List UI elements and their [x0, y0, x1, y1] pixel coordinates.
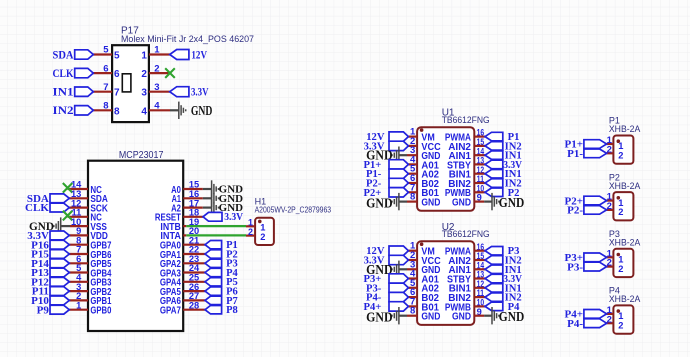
wire U1 pin 8 to ground	[399, 201, 407, 203]
net label 3.3V flag	[389, 255, 408, 264]
ground symbol at P17 pin 4	[170, 109, 179, 111]
wire P17 pin 4	[149, 109, 170, 111]
wire P17 pin 1	[149, 53, 170, 55]
svg-text:8: 8	[410, 192, 415, 203]
wire U1 pin 5	[408, 173, 417, 175]
wire U2 pin 7	[408, 305, 417, 307]
wire U1 pin 7	[408, 191, 417, 193]
net label P3+ flag	[389, 274, 408, 283]
wire P4 pin 1	[606, 313, 613, 315]
U2 pin 1 marker dot	[420, 242, 424, 246]
svg-text:MCP23017: MCP23017	[119, 150, 164, 161]
wire MCP23017 pin 20 stub	[183, 234, 186, 236]
connector P2 body	[613, 192, 633, 220]
net label SDA flag	[50, 194, 69, 203]
svg-text:P4-: P4-	[567, 318, 583, 330]
IC U1 body	[417, 127, 474, 211]
svg-text:3.3V: 3.3V	[224, 212, 243, 223]
net label CLK flag	[75, 68, 94, 77]
wire MCP23017 pin 13	[69, 197, 88, 199]
svg-text:4: 4	[141, 106, 147, 117]
svg-text:GND: GND	[191, 103, 213, 118]
net label P14 flag	[50, 259, 69, 268]
wire P1 pin 2	[606, 152, 613, 154]
wire MCP23017 pin 2	[69, 299, 88, 301]
net label P4 flag	[205, 268, 222, 276]
net label IN1 flag	[75, 87, 94, 96]
svg-text:Molex Mini-Fit Jr 2x4_POS 4620: Molex Mini-Fit Jr 2x4_POS 46207	[121, 34, 254, 44]
svg-text:3: 3	[154, 82, 159, 93]
svg-text:5: 5	[114, 51, 120, 62]
wire MCP23017 pin 4	[69, 281, 88, 283]
svg-text:IN1: IN1	[53, 87, 74, 99]
wire P1 pin 1	[606, 143, 613, 145]
svg-text:8: 8	[103, 101, 108, 112]
wire P17 pin 6	[93, 72, 112, 74]
svg-text:1: 1	[76, 300, 81, 310]
wire U2 pin 13	[474, 277, 485, 279]
net label P16 flag	[50, 240, 69, 249]
net label CLK flag	[50, 203, 69, 212]
connector P17 polarization key	[122, 74, 131, 92]
wire MCP23017 pin 17 to ground	[183, 207, 203, 209]
wire MCP23017 pin 20 to H1 (net)	[186, 234, 246, 236]
net label P3 flag	[485, 247, 503, 256]
svg-text:GPA7: GPA7	[160, 306, 181, 317]
svg-text:4: 4	[154, 101, 160, 112]
svg-text:P8: P8	[226, 305, 238, 316]
net label IN2 flag	[485, 256, 503, 265]
net label P6 flag	[205, 287, 222, 295]
wire MCP23017 pin 1	[69, 309, 88, 311]
wire P3 pin 1	[606, 256, 613, 258]
net label P7 flag	[205, 296, 222, 304]
net label P2 flag	[205, 250, 222, 258]
net label IN2 flag	[485, 293, 503, 302]
svg-text:GND: GND	[366, 310, 393, 325]
wire U2 pin 15	[474, 259, 485, 261]
IC U2 body	[417, 241, 474, 325]
svg-text:GND: GND	[452, 198, 471, 209]
net label P4 flag	[485, 302, 503, 311]
svg-text:3.3V: 3.3V	[191, 87, 209, 99]
no-connect X at MCP23017 pin 11	[63, 211, 73, 221]
wire MCP23017 pin 9	[69, 234, 88, 236]
ground symbol at U2 pin 8	[392, 307, 399, 324]
ground symbol at U2 pin 9	[492, 307, 499, 324]
wire MCP23017 pin 19 to H1 (net)	[186, 225, 246, 227]
net label P5 flag	[205, 278, 222, 286]
net label 3.3V flag	[389, 141, 408, 150]
svg-text:2: 2	[618, 151, 623, 161]
wire MCP23017 pin 5	[69, 271, 88, 273]
net label 12V flag	[389, 132, 408, 141]
wire MCP23017 pin 14 (no connect)	[68, 188, 88, 190]
wire U2 pin 2	[408, 259, 417, 261]
wire U1 pin 2	[408, 145, 417, 147]
wire MCP23017 pin 25	[183, 281, 205, 283]
wire MCP23017 pin 3	[69, 290, 88, 292]
wire U1 pin 13	[474, 163, 485, 165]
wire U1 pin 3 to ground	[399, 154, 407, 156]
svg-text:TB6612FNG: TB6612FNG	[442, 229, 490, 240]
svg-text:3: 3	[141, 88, 147, 99]
svg-text:GND: GND	[421, 312, 440, 323]
svg-text:TB6612FNG: TB6612FNG	[442, 115, 490, 126]
wire U2 pin 16	[474, 250, 485, 252]
wire MCP23017 pin 8	[69, 244, 88, 246]
svg-text:12V: 12V	[191, 50, 207, 62]
svg-text:2: 2	[141, 69, 147, 80]
IC MCP23017 body	[88, 161, 183, 331]
net label P15 flag	[50, 250, 69, 259]
wire U1 pin 4	[408, 163, 417, 165]
net label IN2 flag	[75, 106, 94, 115]
svg-text:XHB-2A: XHB-2A	[609, 124, 641, 134]
wire MCP23017 pin 23	[183, 262, 205, 264]
svg-text:GND: GND	[421, 198, 440, 209]
wire U2 pin 10	[474, 305, 485, 307]
wire U1 pin 10	[474, 191, 485, 193]
net label P8 flag	[205, 306, 222, 314]
net label P12 flag	[50, 277, 69, 286]
svg-text:2: 2	[618, 320, 623, 330]
ground symbol at U1 pin 9	[492, 193, 499, 210]
svg-text:P3-: P3-	[567, 261, 583, 273]
no-connect X at MCP23017 pin 14	[63, 183, 73, 193]
U1 pin 1 marker dot	[420, 128, 424, 132]
svg-text:A2005WV-2P_C2879963: A2005WV-2P_C2879963	[255, 206, 332, 215]
svg-text:P1-: P1-	[567, 148, 583, 160]
no-connect X at P17 pin 2	[165, 68, 175, 78]
P2 pin 1 marker dot	[617, 196, 621, 200]
net label P1+ flag	[389, 160, 408, 169]
connector P1 body	[613, 136, 633, 164]
wire MCP23017 pin 22	[183, 253, 205, 255]
wire MCP23017 pin 10 VSS to ground	[70, 225, 88, 227]
wire U2 pin 12	[474, 287, 485, 289]
wire MCP23017 pin 7	[69, 253, 88, 255]
ground symbol at MCP23017 VSS	[54, 217, 61, 234]
net label IN2 flag	[485, 179, 503, 188]
ground symbol at U1 pin 8	[392, 193, 399, 210]
wire U2 pin 14	[474, 268, 485, 270]
ground symbol at MCP23017 pin 15	[212, 180, 219, 197]
ground symbol at U2 pin 3	[392, 261, 399, 278]
svg-text:1: 1	[141, 51, 147, 62]
wire U2 pin 5	[408, 287, 417, 289]
svg-text:6: 6	[114, 69, 120, 80]
net label P1 flag	[485, 132, 503, 141]
svg-text:2: 2	[248, 227, 253, 237]
wire MCP23017 pin 16 to ground	[183, 197, 203, 199]
svg-text:7: 7	[103, 82, 108, 93]
P4 pin 1 marker dot	[617, 309, 621, 313]
net label P1+ flag	[584, 140, 607, 149]
wire U1 pin 1	[408, 136, 417, 138]
net label IN2 flag	[485, 142, 503, 151]
wire P4 pin 2	[606, 322, 613, 324]
net label P3- flag	[584, 262, 607, 271]
ground symbol at MCP23017 pin 17	[212, 199, 219, 216]
wire U1 pin 6	[408, 182, 417, 184]
net label P1 flag	[205, 241, 222, 249]
wire MCP23017 pin 28	[183, 309, 205, 311]
wire P17 pin 8	[93, 109, 112, 111]
H1 pin 1 marker dot	[258, 220, 262, 224]
ground symbol at U1 pin 3	[392, 147, 399, 164]
wire U1 pin 14	[474, 154, 485, 156]
svg-text:6: 6	[103, 63, 108, 74]
svg-text:8: 8	[410, 306, 415, 317]
wire MCP23017 pin 11 (no connect)	[68, 216, 88, 218]
svg-text:2: 2	[618, 264, 623, 274]
net label P2 flag	[485, 188, 503, 197]
P3 pin 1 marker dot	[617, 253, 621, 257]
net label P3 flag	[205, 259, 222, 267]
wire U1 pin 12	[474, 173, 485, 175]
svg-text:8: 8	[114, 106, 120, 117]
svg-text:2: 2	[260, 232, 265, 242]
svg-text:P9: P9	[37, 304, 50, 316]
wire U2 pin 6	[408, 296, 417, 298]
net label P4+ flag	[584, 310, 607, 319]
wire P17 pin 5	[93, 53, 112, 55]
wire U1 pin 15	[474, 145, 485, 147]
wire H1 pin 2	[246, 235, 255, 237]
wire U2 pin 3 to ground	[399, 268, 407, 270]
net label P2- flag	[389, 178, 408, 187]
wire MCP23017 pin 26	[183, 290, 205, 292]
net label P2+ flag	[584, 196, 607, 205]
svg-text:SDA: SDA	[53, 49, 75, 61]
wire MCP23017 pin 27	[183, 299, 205, 301]
svg-text:CLK: CLK	[53, 68, 74, 80]
connector H1 body	[255, 218, 274, 245]
svg-text:GND: GND	[452, 312, 471, 323]
svg-text:2: 2	[154, 63, 159, 74]
connector P3 body	[613, 249, 633, 277]
net label P9 flag	[50, 305, 69, 314]
wire U2 pin 9 to ground	[474, 315, 484, 317]
power net 3.3V at RESET	[203, 212, 222, 221]
net label IN1 flag	[485, 284, 503, 293]
wire P17 pin 2	[149, 72, 170, 74]
wire MCP23017 pin 19 stub	[183, 225, 186, 227]
svg-text:GND: GND	[499, 309, 525, 324]
wire H1 pin 1	[246, 225, 255, 227]
net label 3.3V flag	[485, 160, 503, 169]
net label 12V flag	[389, 246, 408, 255]
svg-text:XHB-2A: XHB-2A	[609, 294, 641, 304]
svg-text:P2-: P2-	[567, 205, 583, 217]
net label P13 flag	[50, 268, 69, 277]
wire P3 pin 2	[606, 266, 613, 268]
net label P3+ flag	[584, 253, 607, 262]
svg-text:GPB0: GPB0	[90, 306, 111, 317]
net label P4+ flag	[389, 302, 408, 311]
net label P10 flag	[50, 296, 69, 305]
wire MCP23017 pin 12	[69, 207, 88, 209]
wire MCP23017 pin 6	[69, 262, 88, 264]
net label SDA flag	[75, 50, 94, 59]
wire MCP23017 RESET pin 18	[183, 216, 203, 218]
wire MCP23017 pin 24	[183, 271, 205, 273]
wire U1 pin 16	[474, 136, 485, 138]
connector P4 body	[613, 305, 633, 333]
net label IN1 flag	[485, 170, 503, 179]
net label P11 flag	[50, 287, 69, 296]
wire P2 pin 2	[606, 209, 613, 211]
wire U1 pin 11	[474, 182, 485, 184]
wire U2 pin 4	[408, 277, 417, 279]
connector P17 body	[112, 45, 149, 122]
wire U2 pin 8 to ground	[399, 315, 407, 317]
net label IN1 flag	[485, 265, 503, 274]
svg-text:GND: GND	[366, 195, 393, 210]
svg-text:CLK: CLK	[25, 202, 49, 214]
wire MCP23017 pin 15 to ground	[183, 188, 203, 190]
wire U2 pin 11	[474, 296, 485, 298]
wire MCP23017 pin 21	[183, 244, 205, 246]
net label P2+ flag	[389, 188, 408, 197]
wire P2 pin 1	[606, 200, 613, 202]
net label 3.3V flag	[485, 274, 503, 283]
net label 3.3V flag	[50, 231, 69, 240]
net label P4- flag	[389, 292, 408, 301]
svg-text:5: 5	[103, 45, 109, 56]
wire P17 pin 3	[149, 91, 170, 93]
net label IN1 flag	[485, 151, 503, 160]
wire U1 pin 9 to ground	[474, 201, 484, 203]
svg-text:2: 2	[618, 207, 623, 217]
svg-text:1: 1	[154, 45, 160, 56]
ground symbol at MCP23017 pin 16	[212, 190, 219, 207]
net label P4- flag	[584, 319, 607, 328]
net label P3- flag	[389, 283, 408, 292]
net label P1- flag	[584, 149, 607, 158]
wire U2 pin 1	[408, 250, 417, 252]
svg-text:XHB-2A: XHB-2A	[609, 181, 641, 191]
net label P1- flag	[389, 169, 408, 178]
svg-text:IN2: IN2	[53, 105, 74, 117]
svg-text:GND: GND	[499, 195, 525, 210]
wire P17 pin 7	[93, 91, 112, 93]
power net 12V at P17 pin 1	[170, 50, 189, 60]
power net 3.3V at P17 pin 3	[170, 87, 189, 97]
svg-text:7: 7	[114, 88, 120, 99]
net label P2- flag	[584, 206, 607, 215]
svg-text:XHB-2A: XHB-2A	[609, 238, 641, 248]
P1 pin 1 marker dot	[617, 139, 621, 143]
